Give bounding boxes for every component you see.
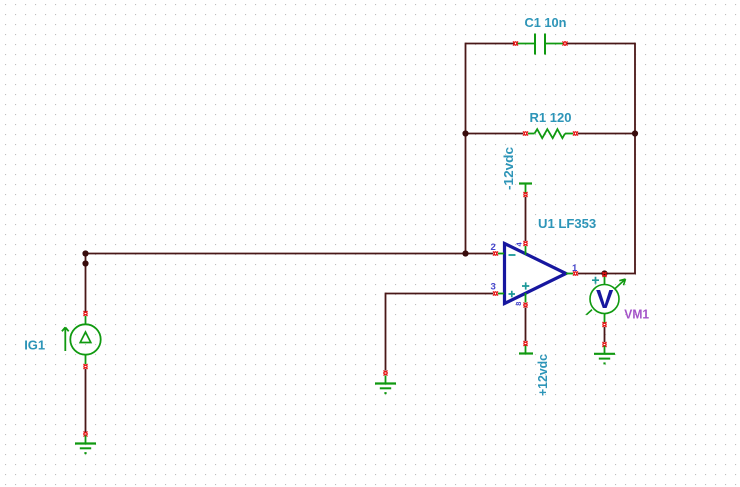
IG1 direction arrow [62,327,69,351]
wire IG1 node down to IG1 top pin [85,254,87,312]
wire pin 8 to +12vdc supply [525,308,527,342]
op-amp minus symbol [509,254,516,256]
power jumper -12vdc [519,184,532,193]
svg-text:IG1: IG1 [24,338,45,353]
pin marker VM1 bottom [602,322,606,327]
wire pin 3 down to ground [385,293,387,371]
wire output to right vertical [578,273,636,275]
pin marker IG1 bottom [83,364,87,369]
svg-text:R1 120: R1 120 [530,110,572,125]
junction node output to VM1 [601,270,607,276]
ground for VM1 [594,346,615,364]
pin marker IG1 top [83,311,87,316]
pin marker C1 left [513,41,518,45]
pin marker pin 3 ground [383,371,387,376]
pin marker +12vdc jumper [523,341,527,346]
wire -12vdc supply to pin 4 [525,197,527,241]
pin marker C1 right [563,41,568,45]
wire VM1 bottom pin to ground [604,327,606,342]
pin marker op-amp pin 4 [523,241,527,246]
pin marker op-amp pin 3 [493,291,498,295]
svg-text:1: 1 [572,263,578,274]
op-amp plus symbol inner [522,282,529,289]
pin marker R1 left [523,131,528,135]
wire top-right horizontal from C1 [567,43,636,45]
pin marker -12vdc jumper [523,192,527,197]
pin marker R1 right [573,131,578,135]
wire right feedback vertical [634,43,636,274]
wire R1 right [578,133,635,135]
VM1 plus symbol [592,277,599,284]
op-amp U1 triangle [505,244,567,304]
junction node feedback to pin 2 [462,250,468,256]
wire IG1 node to op-amp pin 2 [86,253,494,255]
pin marker IG1 ground [83,432,87,437]
resistor R1 [528,129,573,138]
wire top-left horizontal to C1 [466,43,515,45]
junction node at IG1 top (lower dot) [82,260,88,266]
op-amp pin 4 stub [525,246,527,255]
svg-text:8: 8 [514,302,523,306]
junction node at IG1 top (upper dot) [82,250,88,256]
current source IG1 [70,316,100,364]
pin marker VM1 top [602,272,606,277]
wire IG1 bottom pin to ground [85,369,87,432]
junction node feedback left at R1 [462,130,468,136]
pin marker VM1 ground [602,342,606,347]
svg-text:V: V [596,284,614,314]
svg-text:VM1: VM1 [624,308,649,322]
ground at op-amp pin 3 [375,376,396,394]
svg-text:3: 3 [491,282,496,293]
pin marker op-amp pin 1 [573,271,578,275]
svg-text:2: 2 [491,242,496,253]
pin marker op-amp pin 2 [493,251,498,255]
wire R1 left [466,133,524,135]
op-amp pin 2 stub [498,253,504,255]
junction node feedback right at R1 [632,130,638,136]
svg-text:+12vdc: +12vdc [535,354,550,396]
op-amp pin 3 stub [498,293,504,295]
voltmeter VM1 [586,277,625,323]
op-amp pin 8 stub [525,293,527,303]
ground for IG1 [75,436,96,454]
capacitor C1 [518,34,564,55]
svg-text:-12vdc: -12vdc [501,147,516,190]
wire left feedback vertical [465,43,467,254]
svg-text:C1 10n: C1 10n [525,15,567,30]
op-amp output pin 1 stub [566,273,573,275]
wire op-amp pin 3 horizontal [386,293,494,295]
power jumper +12vdc [519,346,533,354]
svg-text:U1 LF353: U1 LF353 [538,216,596,231]
op-amp plus symbol at pin 3 [509,291,516,298]
pin marker op-amp pin 8 [523,303,527,308]
